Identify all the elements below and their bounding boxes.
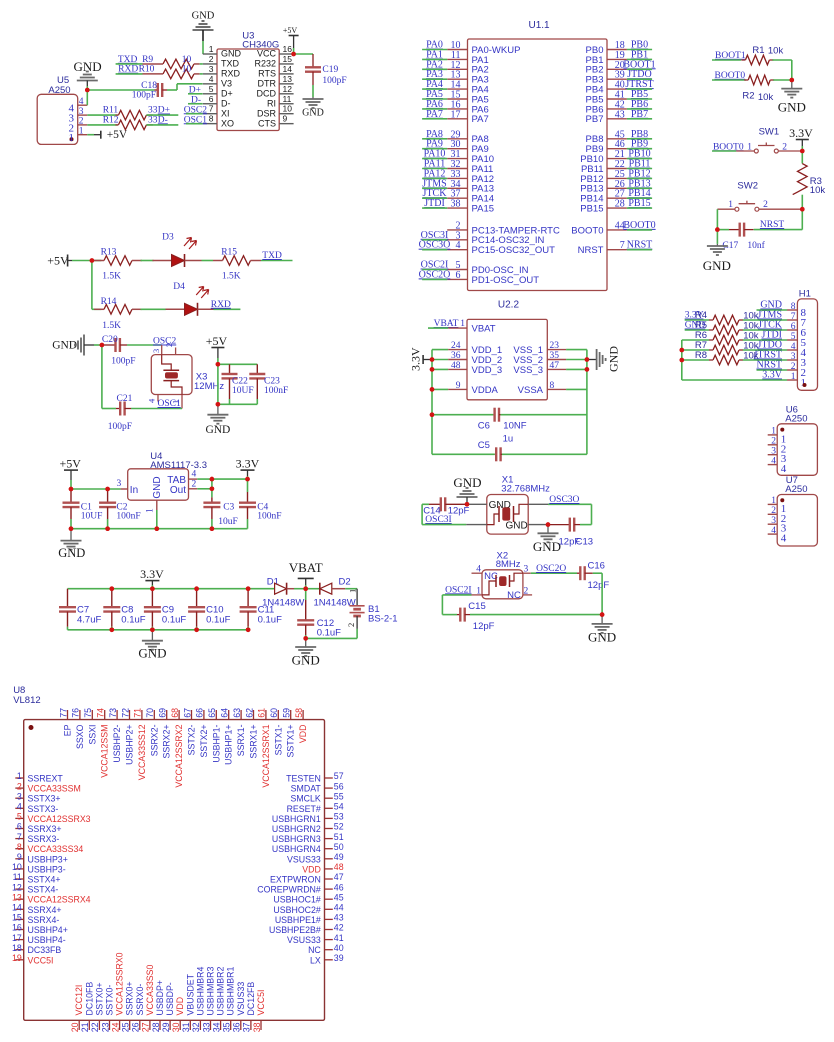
svg-text:9: 9	[456, 381, 461, 391]
svg-text:VCC12I: VCC12I	[74, 985, 84, 1016]
svg-text:VCCA33SS0: VCCA33SS0	[145, 965, 155, 1016]
X1 right pin to OSC3O	[528, 503, 548, 505]
svg-text:3: 3	[771, 447, 776, 457]
svg-text:+5V: +5V	[107, 129, 128, 141]
U1.1 right pin 22 (PB11)	[607, 168, 627, 170]
X3 pin4 NC stub	[157, 395, 159, 402]
svg-text:4: 4	[147, 398, 157, 403]
ground below C12	[305, 638, 307, 647]
svg-text:VSS_3: VSS_3	[513, 365, 543, 376]
svg-text:10k: 10k	[758, 92, 774, 103]
svg-text:USBHP3+: USBHP3+	[28, 854, 68, 864]
U3 pin 11 (RI) stub	[279, 103, 293, 105]
svg-text:22: 22	[90, 1022, 100, 1032]
U8 right pin 44 USBHOC2#	[325, 908, 333, 910]
svg-text:XO: XO	[221, 118, 234, 128]
U8 right pin 52 USBHGRN2	[325, 828, 333, 830]
ground below C9	[151, 630, 153, 641]
U8 left pin 1 SSREXT	[15, 777, 23, 779]
svg-text:U2.2: U2.2	[498, 300, 520, 311]
U8 right pin 46 COREPWRDN#	[325, 888, 333, 890]
U8 left pin 11 SSTX4+	[15, 878, 23, 880]
junction C17 left	[715, 227, 720, 232]
U3 pin 9 (CTS) stub	[279, 123, 293, 125]
U2.2 right pin 23 VSS_1	[547, 349, 566, 351]
svg-text:4: 4	[192, 470, 197, 480]
U1.1 left pin 31 (PA10)	[447, 158, 467, 160]
U3 pin 3 (RXD) stub	[203, 73, 217, 75]
svg-text:TXD: TXD	[262, 251, 282, 261]
svg-text:SSTX1+: SSTX1+	[286, 725, 296, 758]
U8 right pin 47 EXTPWRON	[325, 878, 333, 880]
svg-text:67: 67	[182, 708, 192, 718]
resistor R6 10k	[682, 339, 710, 341]
svg-text:35: 35	[550, 351, 560, 361]
svg-text:1: 1	[209, 44, 214, 54]
svg-text:1N4148W: 1N4148W	[314, 598, 356, 609]
svg-text:VBAT: VBAT	[289, 560, 323, 575]
U8 bottom pin 36 VSUS33	[240, 1020, 242, 1030]
U5 pin 4 stub	[78, 104, 88, 106]
svg-text:VCCA12SSRX2: VCCA12SSRX2	[174, 724, 184, 787]
U8 left pin 10 USBHP3-	[15, 868, 23, 870]
svg-text:VDD: VDD	[302, 864, 321, 874]
resistor R13 1.5K	[92, 260, 101, 262]
svg-text:USBDP+: USBDP+	[155, 980, 165, 1015]
svg-text:10NF: 10NF	[503, 420, 526, 431]
wire U5 pin4 up to GND junction	[86, 90, 88, 105]
H1 pin 3 stub	[787, 359, 797, 361]
svg-text:63: 63	[232, 708, 242, 718]
svg-text:GND: GND	[607, 346, 621, 372]
junction X1 gnd/C13	[546, 522, 551, 527]
U2.2 right pin 47 VSS_3	[547, 368, 566, 370]
svg-text:0.1uF: 0.1uF	[162, 615, 186, 626]
wire H1 pin8 GND	[757, 309, 788, 311]
svg-text:XI: XI	[221, 108, 230, 118]
svg-text:DC33FB: DC33FB	[28, 945, 62, 955]
svg-text:+5V: +5V	[283, 26, 298, 35]
svg-text:0.1uF: 0.1uF	[258, 615, 282, 626]
capacitor C20 100pF	[102, 344, 115, 346]
junction at GND / C18 node	[85, 88, 90, 93]
svg-text:1: 1	[476, 586, 481, 596]
svg-text:R9: R9	[142, 55, 153, 65]
U8 left pin 2 VCCA33SSM	[15, 787, 23, 789]
svg-text:GND: GND	[152, 476, 163, 498]
X3 pin1 stub to OSC1	[181, 395, 183, 409]
U1.1 left pin 17 (PA7)	[447, 118, 467, 120]
svg-text:1: 1	[728, 200, 733, 210]
U6 pin 4 stub	[768, 464, 778, 466]
svg-text:9: 9	[17, 852, 22, 862]
svg-text:10: 10	[283, 104, 293, 114]
U8 left pin 3 SSTX3+	[15, 797, 23, 799]
U8 top pin 63 SSRX1-	[240, 710, 242, 720]
wire TAB to 3.3V port	[197, 478, 247, 480]
svg-text:13: 13	[283, 74, 293, 84]
junction C2 top	[105, 487, 110, 492]
svg-text:DC10FB: DC10FB	[84, 982, 94, 1016]
svg-text:3.3V: 3.3V	[789, 126, 813, 140]
svg-text:1: 1	[791, 372, 796, 382]
svg-text:R8: R8	[695, 350, 707, 361]
svg-text:OSC3I: OSC3I	[425, 515, 451, 525]
svg-text:VCCA12SSM: VCCA12SSM	[100, 725, 110, 778]
svg-text:USBHGRN2: USBHGRN2	[272, 824, 321, 834]
svg-text:100pF: 100pF	[322, 76, 346, 86]
svg-text:1: 1	[79, 127, 84, 137]
svg-text:46: 46	[334, 882, 344, 892]
svg-text:1: 1	[146, 508, 156, 513]
svg-text:4.7uF: 4.7uF	[77, 615, 101, 626]
svg-text:3.3V: 3.3V	[236, 456, 260, 470]
junction R1/R2 gnd	[790, 78, 795, 83]
U8 right pin 39 LX	[325, 959, 333, 961]
svg-text:6: 6	[17, 822, 22, 832]
U8 bottom pin 38 VCC5I	[260, 1020, 262, 1030]
U2.2 pin8 VSSA	[547, 388, 566, 390]
X2 pin1 stub OSC2I	[472, 594, 483, 596]
svg-text:33: 33	[148, 106, 158, 116]
svg-text:GND: GND	[506, 521, 528, 532]
U8 right pin 48 VDD	[325, 868, 333, 870]
svg-text:12: 12	[283, 84, 293, 94]
capacitor C14 12pF	[422, 503, 429, 505]
svg-text:D+: D+	[221, 89, 233, 99]
U8 right pin 45 USBHOC1#	[325, 898, 333, 900]
svg-text:49: 49	[334, 852, 344, 862]
svg-text:1: 1	[771, 496, 776, 506]
U3 pin 5 (D+) stub	[203, 93, 217, 95]
U3 pin 13 (DTR) stub	[279, 83, 293, 85]
U8 top pin 68 VCCA12SSRX2	[178, 710, 180, 720]
top rail VBAT row	[68, 588, 275, 590]
svg-text:VL812: VL812	[13, 695, 40, 706]
svg-text:SSTX3+: SSTX3+	[28, 794, 61, 804]
svg-text:62: 62	[244, 708, 254, 718]
svg-text:16: 16	[283, 44, 293, 54]
H1 pin 7 stub	[787, 319, 797, 321]
svg-text:PA7: PA7	[472, 114, 489, 125]
svg-text:+5V: +5V	[47, 253, 69, 267]
svg-text:100nF: 100nF	[257, 511, 281, 521]
resistor R3 10k (vertical)	[801, 151, 803, 164]
junction at U3 pin16 VCC	[291, 52, 296, 57]
resistor R2 10k	[748, 75, 770, 85]
U8 left pin 7 SSRX3-	[15, 838, 23, 840]
svg-text:DSR: DSR	[257, 108, 277, 118]
svg-text:USBHP2+: USBHP2+	[125, 725, 135, 765]
U8 bottom pin 32 USBHMBR4	[199, 1020, 201, 1030]
svg-text:8: 8	[550, 381, 555, 391]
vertical rail left of R6-R8 to H1 pin1	[681, 340, 683, 380]
svg-text:GND: GND	[192, 11, 215, 22]
svg-text:NC: NC	[308, 945, 321, 955]
svg-text:4: 4	[781, 533, 787, 545]
svg-text:SSRX1+: SSRX1+	[249, 725, 259, 759]
svg-text:6: 6	[209, 94, 214, 104]
svg-text:100pF: 100pF	[108, 422, 132, 432]
svg-text:R15: R15	[221, 248, 237, 258]
U1.1 left pin 37 (PA14)	[447, 197, 467, 199]
svg-text:3.3V: 3.3V	[140, 567, 164, 581]
svg-text:C15: C15	[468, 601, 485, 612]
wire R1 to GND rail	[772, 59, 791, 61]
wire U5 pin2 to R12	[87, 124, 118, 126]
svg-text:SSRX4-: SSRX4-	[28, 915, 60, 925]
svg-text:74: 74	[96, 708, 106, 718]
resistor R11 33	[118, 110, 146, 120]
X1 bottom-right GND pin	[528, 524, 548, 526]
U8 top pin 65 USBHP1-	[215, 710, 217, 720]
svg-text:VSUS33: VSUS33	[287, 854, 321, 864]
wire B1 to C12 gnd node	[356, 629, 358, 639]
svg-text:C22: C22	[232, 377, 248, 387]
svg-text:1: 1	[801, 377, 807, 389]
svg-text:56: 56	[334, 781, 344, 791]
U8 top pin 66 SSTX2+	[203, 710, 205, 720]
resistor R9 10	[163, 59, 194, 69]
svg-text:47: 47	[334, 872, 344, 882]
U8 top pin 58 VDD	[302, 710, 304, 720]
svg-text:VSSA: VSSA	[518, 385, 544, 396]
junction C15/C16 gnd	[600, 612, 605, 617]
GND rotated port right of U2.2	[587, 359, 597, 361]
svg-text:48: 48	[451, 361, 461, 371]
svg-text:32: 32	[191, 1022, 201, 1032]
svg-text:65: 65	[207, 708, 217, 718]
svg-text:C16: C16	[588, 561, 605, 572]
svg-text:3: 3	[524, 565, 529, 575]
svg-text:USBHOC1#: USBHOC1#	[273, 895, 321, 905]
U1.1 right pin 20 (PB2)	[607, 68, 627, 70]
svg-text:SMCLK: SMCLK	[290, 794, 320, 804]
svg-text:53: 53	[334, 812, 344, 822]
svg-text:C3: C3	[223, 503, 234, 513]
bottom rail VBAT row	[68, 629, 249, 631]
U1.1 left pin 38 (PA15)	[447, 207, 467, 209]
U8 right pin 50 USBHGRN4	[325, 848, 333, 850]
svg-text:USBDP-: USBDP-	[165, 982, 175, 1015]
svg-text:37: 37	[242, 1022, 252, 1032]
U1.1 right pin 25 (PB12)	[607, 177, 627, 179]
svg-text:7: 7	[791, 312, 796, 322]
wire H1 pin2 NRST	[757, 369, 788, 371]
svg-text:4: 4	[79, 97, 84, 107]
svg-text:USBHP3-: USBHP3-	[28, 864, 66, 874]
U6 pin 1 stub	[768, 434, 778, 436]
X2 pin3 stub to OSC2O	[523, 572, 531, 574]
capacitor C3 10uF	[211, 497, 213, 502]
svg-text:USBHMBR1: USBHMBR1	[226, 967, 236, 1016]
svg-text:1.5K: 1.5K	[102, 272, 121, 282]
svg-text:VCC5I: VCC5I	[256, 990, 266, 1016]
svg-text:38: 38	[252, 1022, 262, 1032]
svg-text:19: 19	[12, 953, 22, 963]
svg-text:10: 10	[12, 862, 22, 872]
svg-text:23: 23	[550, 341, 560, 351]
svg-text:42: 42	[334, 923, 344, 933]
svg-text:DCD: DCD	[257, 89, 277, 99]
svg-text:43: 43	[615, 109, 625, 120]
svg-text:12pF: 12pF	[588, 580, 610, 591]
svg-text:OSC2O: OSC2O	[536, 564, 566, 574]
svg-text:SSXI: SSXI	[87, 725, 97, 745]
svg-text:PB7: PB7	[586, 114, 604, 125]
svg-text:33: 33	[148, 115, 158, 125]
svg-text:DTR: DTR	[258, 79, 277, 89]
svg-text:6: 6	[791, 322, 796, 332]
wire Out to C3 column	[197, 488, 212, 490]
svg-text:2: 2	[192, 479, 197, 489]
svg-text:2: 2	[524, 586, 529, 596]
svg-text:5: 5	[209, 84, 214, 94]
svg-text:SSRX1-: SSRX1-	[236, 724, 246, 756]
capacitor C4 100nF	[247, 479, 249, 492]
svg-text:15: 15	[12, 913, 22, 923]
X2 pin2 NC stub	[523, 594, 532, 596]
svg-text:LX: LX	[310, 955, 321, 965]
svg-text:41: 41	[334, 933, 344, 943]
svg-text:BS-2-1: BS-2-1	[368, 614, 398, 625]
svg-text:1u: 1u	[503, 434, 514, 445]
svg-text:72: 72	[120, 708, 130, 718]
svg-text:V3: V3	[221, 79, 232, 89]
junction dots (overlay)	[69, 52, 805, 641]
H1 pin 2 stub	[787, 369, 797, 371]
U2.2 left pin 36 VDD_2	[432, 359, 448, 361]
svg-text:10uF: 10uF	[218, 517, 238, 527]
svg-text:2: 2	[164, 343, 174, 347]
svg-text:60: 60	[269, 708, 279, 718]
svg-text:29: 29	[161, 1022, 171, 1032]
U8 top pin 70 SSRX2-	[153, 710, 155, 720]
svg-text:GND: GND	[778, 100, 806, 115]
wire VCC to C19	[294, 53, 313, 55]
U8 bottom pin 20 VCC12I	[78, 1020, 80, 1030]
U1.1 left pin 6 (PD1-OSC_OUT)	[447, 278, 467, 280]
svg-text:1.5K: 1.5K	[102, 321, 121, 331]
svg-text:GND: GND	[138, 646, 166, 661]
U1.1 right pin 44 (BOOT0)	[607, 229, 627, 231]
svg-text:5: 5	[17, 812, 22, 822]
svg-text:59: 59	[282, 708, 292, 718]
capacitor C5 1u	[432, 453, 495, 455]
ground below C16	[601, 615, 603, 624]
U1.1 right pin 21 (PB10)	[607, 158, 627, 160]
U8 left pin 8 VCCA33SS34	[15, 848, 23, 850]
svg-text:USBHOC2#: USBHOC2#	[273, 905, 321, 915]
svg-text:USBHMBR4: USBHMBR4	[195, 967, 205, 1016]
junction +5V top rail	[216, 362, 221, 367]
svg-text:7: 7	[620, 240, 625, 251]
U8 top pin 72 USBHP2+	[129, 710, 131, 720]
svg-text:4: 4	[771, 526, 776, 536]
svg-text:D-: D-	[221, 98, 231, 108]
svg-text:D-: D-	[158, 115, 168, 125]
U1.1 right pin 26 (PB13)	[607, 187, 627, 189]
svg-text:100pF: 100pF	[132, 91, 156, 101]
U1.1 left pin 16 (PA6)	[447, 108, 467, 110]
svg-text:SSRX0-: SSRX0-	[135, 984, 145, 1016]
svg-text:4: 4	[781, 463, 787, 475]
svg-text:SSRX0+: SSRX0+	[125, 982, 135, 1016]
svg-text:USBHP1+: USBHP1+	[224, 725, 234, 765]
U1.1 left pin 14 (PA4)	[447, 88, 467, 90]
U6 pin 3 stub	[768, 454, 778, 456]
svg-text:SMDAT: SMDAT	[291, 784, 322, 794]
U8 bottom pin 28 USBDP+	[159, 1020, 161, 1030]
junction C20/C21	[100, 343, 105, 348]
svg-text:D4: D4	[173, 282, 185, 292]
wire H1 pin1 3.3V rail	[682, 379, 787, 381]
U8 bottom pin 23 SSTX0-	[109, 1020, 111, 1030]
U8 left pin 17 USBHP4-	[15, 939, 23, 941]
svg-text:4: 4	[456, 240, 461, 251]
svg-text:USBHGRN3: USBHGRN3	[272, 834, 321, 844]
svg-text:USBHGRN1: USBHGRN1	[272, 814, 321, 824]
svg-text:4: 4	[476, 565, 481, 575]
svg-text:D2: D2	[339, 577, 351, 588]
U8 pin-1 marker dot	[29, 725, 34, 730]
svg-text:NC: NC	[507, 590, 521, 601]
svg-text:4: 4	[209, 74, 214, 84]
wire OSC1 row	[101, 345, 103, 409]
svg-text:SSTX2+: SSTX2+	[199, 725, 209, 758]
svg-text:VCCA12SSRX3: VCCA12SSRX3	[28, 814, 91, 824]
svg-text:4: 4	[791, 342, 796, 352]
svg-text:26: 26	[131, 1022, 141, 1032]
svg-text:33: 33	[201, 1022, 211, 1032]
U3 pin 16 (VCC) stub	[279, 53, 293, 55]
junction VBAT	[303, 586, 308, 591]
svg-text:8: 8	[209, 114, 214, 124]
svg-text:SSRX3+: SSRX3+	[28, 824, 62, 834]
svg-text:2: 2	[79, 117, 84, 127]
svg-text:66: 66	[195, 708, 205, 718]
svg-text:36: 36	[232, 1022, 242, 1032]
svg-text:7: 7	[17, 832, 22, 842]
svg-text:Out: Out	[170, 485, 186, 496]
ground below R2	[791, 80, 793, 89]
U5 pin-1 marker dot	[70, 137, 74, 141]
svg-text:8: 8	[17, 842, 22, 852]
U8 left pin 18 DC33FB	[15, 949, 23, 951]
U1.1 right pin 28 (PB15)	[607, 207, 627, 209]
svg-text:38: 38	[451, 199, 461, 210]
svg-text:2: 2	[771, 506, 776, 516]
svg-text:43: 43	[334, 913, 344, 923]
U8 right pin 51 USBHGRN3	[325, 838, 333, 840]
U8 right pin 42 USBHPE2B#	[325, 929, 333, 931]
svg-text:A250: A250	[785, 484, 807, 495]
svg-text:76: 76	[71, 708, 81, 718]
svg-text:10nf: 10nf	[747, 240, 765, 251]
H1 pin 5 stub	[787, 339, 797, 341]
U8 left pin 9 USBHP3+	[15, 858, 23, 860]
svg-text:35: 35	[222, 1022, 232, 1032]
U8 right pin 56 SMDAT	[325, 787, 333, 789]
U8 left pin 19 VCC5I	[15, 959, 23, 961]
U8 bottom pin 34 USBHMBR2	[220, 1020, 222, 1030]
U1.1 right pin 43 (PB7)	[607, 118, 627, 120]
X3 pin2 NC stub	[175, 348, 177, 355]
resistor R7 10k	[682, 349, 710, 351]
U8 right pin 43 USBHPE1#	[325, 918, 333, 920]
U8 left pin 16 USBHP4+	[15, 929, 23, 931]
U8 bottom pin 26 SSRX0-	[139, 1020, 141, 1030]
